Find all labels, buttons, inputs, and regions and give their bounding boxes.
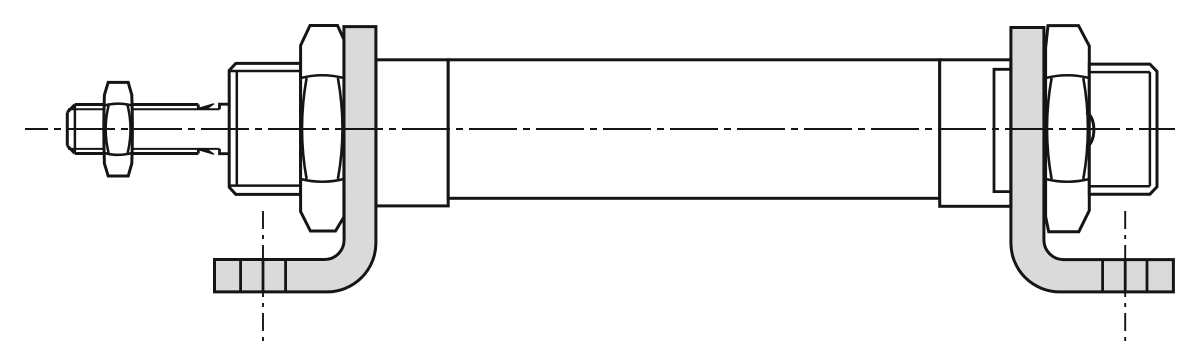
rear end boss chamfer inner bottom line [1089, 185, 1150, 188]
foot bracket right slot line 1 [1101, 260, 1104, 292]
mounting hex nut right facet line bottom [1046, 179, 1090, 182]
rod collar step top [220, 104, 230, 109]
rod hex nut facet arc right [128, 105, 131, 153]
piston rod thread OD bottom [75, 152, 198, 155]
mounting hex nut right facet arc right [1083, 78, 1088, 179]
foot bracket left slot line 2 [262, 260, 265, 292]
rear end boss body [1089, 64, 1157, 194]
cylinder tube body [448, 60, 940, 199]
rear cap boss step [994, 69, 1011, 191]
foot bracket left slot line 3 [284, 260, 287, 292]
thread end step top [197, 105, 200, 110]
foot bracket right slot line 3 [1146, 260, 1149, 292]
horizontal centerline [25, 128, 1175, 130]
mounting hex nut left body [301, 26, 344, 232]
vertical centerline left foot [262, 211, 264, 342]
cylinder rear cap (right, before bracket) [940, 60, 1011, 207]
rod hex nut body [104, 82, 133, 176]
foot bracket left slot line 1 [239, 260, 242, 292]
vertical centerline right foot [1124, 211, 1126, 342]
rod hex nut facet line bottom [105, 153, 132, 155]
piston rod thread minor bottom [68, 148, 220, 150]
thread end step bottom [197, 149, 200, 154]
mounting hex nut right facet arc left [1047, 78, 1052, 179]
front gland boss chamfer inner vertical [236, 71, 239, 186]
mounting hex nut left facet line top [301, 75, 344, 78]
piston rod thread OD top [75, 103, 198, 106]
foot bracket right (L-shape, gray) [1011, 28, 1174, 292]
rod hex nut facet arc left [106, 105, 109, 153]
foot bracket right slot line 2 [1124, 260, 1127, 292]
mounting hex nut left facet arc right [338, 78, 343, 179]
mounting hex nut right facet line top [1046, 75, 1090, 78]
piston rod end chamfer bottom [67, 146, 75, 154]
foot bracket left (L-shape, gray) [215, 27, 376, 292]
rod hex nut facet line top [105, 104, 132, 106]
rod collar step bottom [220, 149, 230, 154]
front gland boss chamfer inner bottom line [230, 184, 301, 187]
front gland boss (left of bracket) [229, 63, 300, 194]
rear end boss chamfer inner top line [1089, 71, 1150, 74]
piston rod end chamfer top [67, 105, 75, 113]
piston rod end face [66, 112, 69, 145]
cylinder front cap (left, behind bracket) [376, 60, 448, 206]
thread runout wedge bottom [200, 149, 214, 155]
piston rod thread minor top [68, 108, 220, 110]
thread runout wedge top [200, 104, 214, 110]
piston rod end chamfer edge vertical [74, 105, 77, 154]
mounting hex nut left facet arc left [302, 78, 307, 179]
rear thread hole arc [1086, 113, 1094, 147]
mounting hex nut right body [1046, 26, 1090, 232]
rear end boss chamfer inner vertical [1149, 72, 1152, 186]
mounting hex nut left facet line bottom [301, 179, 344, 182]
front gland boss chamfer inner top line [230, 70, 301, 73]
